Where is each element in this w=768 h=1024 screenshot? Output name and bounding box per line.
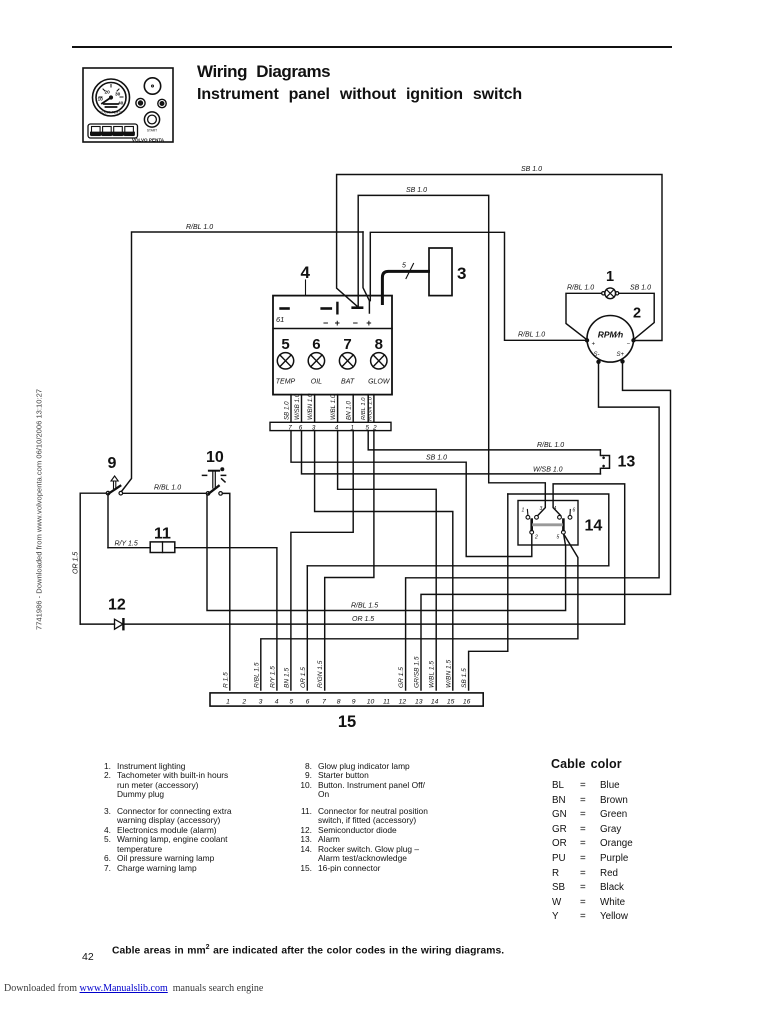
title — [197, 62, 330, 82]
wire from 9 left contact down to R/Y — [107, 495, 109, 548]
wire 9 to 10 R/BL 1.0 — [123, 492, 206, 494]
svg-text:8: 8 — [337, 698, 341, 705]
top rule — [72, 46, 672, 48]
wire SB 1.0 second loop (module to bus pin7 via right drop) — [358, 195, 545, 515]
svg-text:10: 10 — [206, 449, 224, 466]
svg-text:12: 12 — [108, 597, 126, 614]
cable color block — [0, 0, 1, 1]
svg-text:15: 15 — [447, 698, 455, 705]
bus wire labels rotated — [284, 393, 374, 421]
16-pin connector 15 — [210, 693, 483, 706]
svg-text:8: 8 — [375, 336, 383, 353]
svg-text:R/BL 1.0: R/BL 1.0 — [518, 332, 545, 339]
svg-text:1: 1 — [606, 269, 614, 285]
svg-text:R/GN 1.5: R/GN 1.5 — [317, 660, 324, 688]
svg-text:OR 1.5: OR 1.5 — [352, 616, 374, 623]
svg-text:9: 9 — [352, 698, 356, 705]
svg-text:R/GN 1.0: R/GN 1.0 — [368, 396, 374, 421]
svg-text:6: 6 — [306, 698, 310, 705]
svg-text:+: + — [335, 318, 340, 328]
connector cable labels rotated — [222, 656, 468, 688]
svg-text:GR 1.5: GR 1.5 — [398, 667, 405, 688]
page number — [82, 951, 94, 963]
svg-text:40: 40 — [118, 101, 124, 107]
svg-text:R/BL 1.0: R/BL 1.0 — [567, 285, 594, 292]
svg-text:14: 14 — [585, 518, 603, 535]
svg-text:VOLVO PENTA: VOLVO PENTA — [132, 138, 165, 143]
svg-text:5: 5 — [289, 698, 293, 705]
lamp 6 OIL — [308, 336, 324, 386]
svg-text:SB 1.0: SB 1.0 — [284, 401, 291, 420]
bottom bold note — [112, 944, 504, 956]
svg-text:14: 14 — [431, 698, 439, 705]
svg-text:16: 16 — [463, 698, 471, 705]
rocker switch 14 outer enclosure — [508, 494, 609, 566]
sidebar vertical text — [35, 385, 44, 635]
svg-text:20: 20 — [105, 90, 111, 96]
svg-text:−: − — [353, 318, 358, 328]
starter button 9 — [106, 491, 110, 495]
wire from bus pin2 to connector pin 7 — [325, 431, 374, 690]
svg-text:7: 7 — [343, 336, 351, 353]
svg-text:W/SB 1.0: W/SB 1.0 — [533, 466, 563, 473]
svg-text:30: 30 — [115, 92, 121, 98]
OR riser up and over to switch 14 pin 4 — [553, 484, 625, 624]
svg-text:W/BL 1.0: W/BL 1.0 — [330, 394, 337, 420]
svg-text:S+: S+ — [617, 352, 625, 358]
svg-text:TEMP: TEMP — [276, 379, 296, 386]
svg-text:2: 2 — [633, 306, 641, 322]
svg-text:11: 11 — [383, 698, 390, 705]
lamp 1 right wire to tacho minus — [619, 293, 654, 339]
svg-text:61: 61 — [276, 315, 284, 324]
svg-text:R/BL 1.0: R/BL 1.0 — [186, 224, 213, 231]
svg-text:5: 5 — [557, 535, 560, 541]
svg-text:2: 2 — [372, 424, 377, 431]
svg-text:START: START — [147, 129, 157, 133]
tacho S+ wire to connector pin 13 — [421, 362, 671, 690]
svg-text:R/BL 1.0: R/BL 1.0 — [361, 397, 367, 420]
svg-text:R/Y 1.5: R/Y 1.5 — [115, 541, 138, 548]
svg-text:SB 1.0: SB 1.0 — [630, 285, 651, 292]
wire R/BL 1.0 from bus pin5 to alarm 13 — [368, 431, 600, 450]
indicator lamp 1 — [605, 288, 616, 299]
thick cable to dummy plug 3 — [382, 271, 428, 303]
svg-text:1: 1 — [522, 508, 525, 514]
svg-text:SB 1.0: SB 1.0 — [521, 166, 542, 173]
svg-text:11: 11 — [154, 526, 171, 543]
svg-text:BAT: BAT — [341, 379, 355, 386]
svg-text:BN 1.0: BN 1.0 — [346, 401, 353, 420]
svg-text:12: 12 — [399, 698, 407, 705]
svg-text:5: 5 — [402, 263, 406, 270]
svg-text:2: 2 — [241, 698, 246, 705]
polarity signs — [323, 318, 372, 328]
wire from 9 left contact to OR run — [80, 493, 106, 624]
svg-text:3: 3 — [540, 506, 543, 512]
svg-text:2: 2 — [534, 535, 538, 541]
wire fuse to connector pin 4 — [175, 548, 277, 690]
switch 14 contacts — [526, 515, 530, 519]
svg-text:R/BL 1.0: R/BL 1.0 — [154, 485, 181, 492]
terminal 61 — [281, 307, 289, 310]
svg-text:RPM⁄h: RPM⁄h — [598, 330, 624, 340]
svg-text:R/BL 1.0: R/BL 1.0 — [537, 442, 564, 449]
module bus pin numbers — [288, 424, 377, 431]
svg-text:3: 3 — [259, 698, 263, 705]
svg-text:R/BL 1.5: R/BL 1.5 — [351, 603, 378, 610]
alarm 13 — [599, 450, 601, 474]
svg-text:9: 9 — [108, 455, 117, 472]
wire R/BL 1.0 long left run (top to switch 9) — [122, 232, 363, 491]
svg-text:10: 10 — [367, 698, 375, 705]
svg-text:OR 1.5: OR 1.5 — [73, 552, 80, 574]
legend column 1 — [0, 0, 1, 1]
svg-text:−: − — [323, 318, 328, 328]
svg-text:BN 1.5: BN 1.5 — [283, 668, 290, 688]
svg-text:15: 15 — [338, 713, 356, 731]
svg-text:R/BL 1.5: R/BL 1.5 — [253, 662, 260, 688]
terminal dash C — [353, 306, 362, 309]
svg-text:GR/SB 1.5: GR/SB 1.5 — [414, 656, 421, 688]
svg-text:SB 1.0: SB 1.0 — [426, 455, 447, 462]
svg-text:+: + — [592, 342, 596, 348]
terminal dash A — [322, 307, 331, 310]
lamp 5 TEMP — [276, 336, 296, 386]
terminal bar B — [336, 303, 338, 313]
diode 12 — [80, 623, 114, 625]
lighting switch 10 — [206, 492, 210, 496]
lamp 8 GLOW — [368, 336, 391, 386]
wire from 10 right contact to connector pin 1 — [223, 493, 230, 690]
fuse connector 11 — [108, 547, 150, 549]
wire SB 1.0 top loop (module to tacho right) — [337, 175, 662, 341]
svg-text:W/BN 1.0: W/BN 1.0 — [307, 393, 314, 420]
svg-text:6: 6 — [312, 336, 320, 353]
dummy plug 3 — [429, 248, 452, 296]
svg-text:7: 7 — [322, 698, 326, 705]
svg-text:13: 13 — [618, 454, 636, 471]
wire from bus pin3 to connector pin 15 — [315, 431, 453, 690]
svg-text:W/SB 1.0: W/SB 1.0 — [294, 393, 301, 420]
svg-text:S-: S- — [594, 352, 600, 358]
svg-text:6: 6 — [573, 508, 576, 514]
wire from bus pin1 to connector pin 5 — [291, 431, 353, 690]
connector 15 pin numbers — [226, 698, 470, 705]
tacho S- wire to connector pin 12 — [406, 362, 659, 690]
svg-text:4: 4 — [554, 506, 557, 512]
svg-text:W/BN 1.5: W/BN 1.5 — [445, 659, 452, 688]
wire W/SB 1.0 from bus pin6 to alarm 13 — [302, 431, 601, 474]
wire SB 1.0 from bus pin7 down and over to switch 14 pin 2 — [291, 431, 532, 557]
svg-text:10: 10 — [98, 97, 104, 103]
module to bus wires — [291, 395, 374, 423]
svg-text:−: − — [627, 342, 631, 348]
enclosure bottom line to connector pin 6 — [307, 565, 609, 567]
rocker switch 14 inner box — [518, 501, 578, 546]
wire from bus pin4 to connector pin 14 — [338, 431, 437, 690]
lamp 1 left wire to tacho plus — [566, 293, 602, 339]
svg-text:SB 1.5: SB 1.5 — [461, 668, 468, 688]
svg-text:13: 13 — [415, 698, 423, 705]
svg-text:VOLVO PENTA: VOLVO PENTA — [100, 111, 123, 115]
wire labels — [73, 166, 652, 623]
svg-text:R 1.5: R 1.5 — [222, 672, 229, 688]
svg-text:OR 1.5: OR 1.5 — [300, 667, 307, 688]
svg-text:GLOW: GLOW — [368, 379, 391, 386]
svg-text:R/Y 1.5: R/Y 1.5 — [269, 666, 276, 688]
switch 14 pin5 second wire to connector pin 3 — [261, 535, 578, 691]
svg-text:5: 5 — [281, 336, 289, 353]
svg-text:4: 4 — [275, 698, 279, 705]
wire from 10 left contact down then R/BL 1.5 run to switch 14 pin5 — [207, 495, 566, 610]
legend column 2 — [0, 0, 1, 1]
cable marker slash and label 5 — [406, 264, 414, 279]
bus bar of module — [270, 422, 391, 430]
svg-text:W/BL 1.5: W/BL 1.5 — [429, 661, 436, 688]
electronics module 4 box — [273, 296, 392, 395]
lamp 7 BAT — [339, 336, 355, 386]
manualslib footer — [4, 983, 263, 994]
wire R/BL 1.0 right run (module plus terminal to tacho feed) — [370, 232, 586, 340]
svg-text:OIL: OIL — [311, 379, 322, 386]
svg-text:SB 1.0: SB 1.0 — [406, 187, 427, 194]
svg-text:4: 4 — [301, 263, 311, 282]
wire OR 1.5 run from diode to riser — [124, 623, 625, 625]
svg-text:3: 3 — [457, 264, 466, 283]
svg-text:+: + — [366, 318, 371, 328]
svg-text:1: 1 — [226, 698, 230, 705]
instrument panel logo drawing — [83, 68, 173, 142]
tachometer 2 — [587, 316, 634, 363]
